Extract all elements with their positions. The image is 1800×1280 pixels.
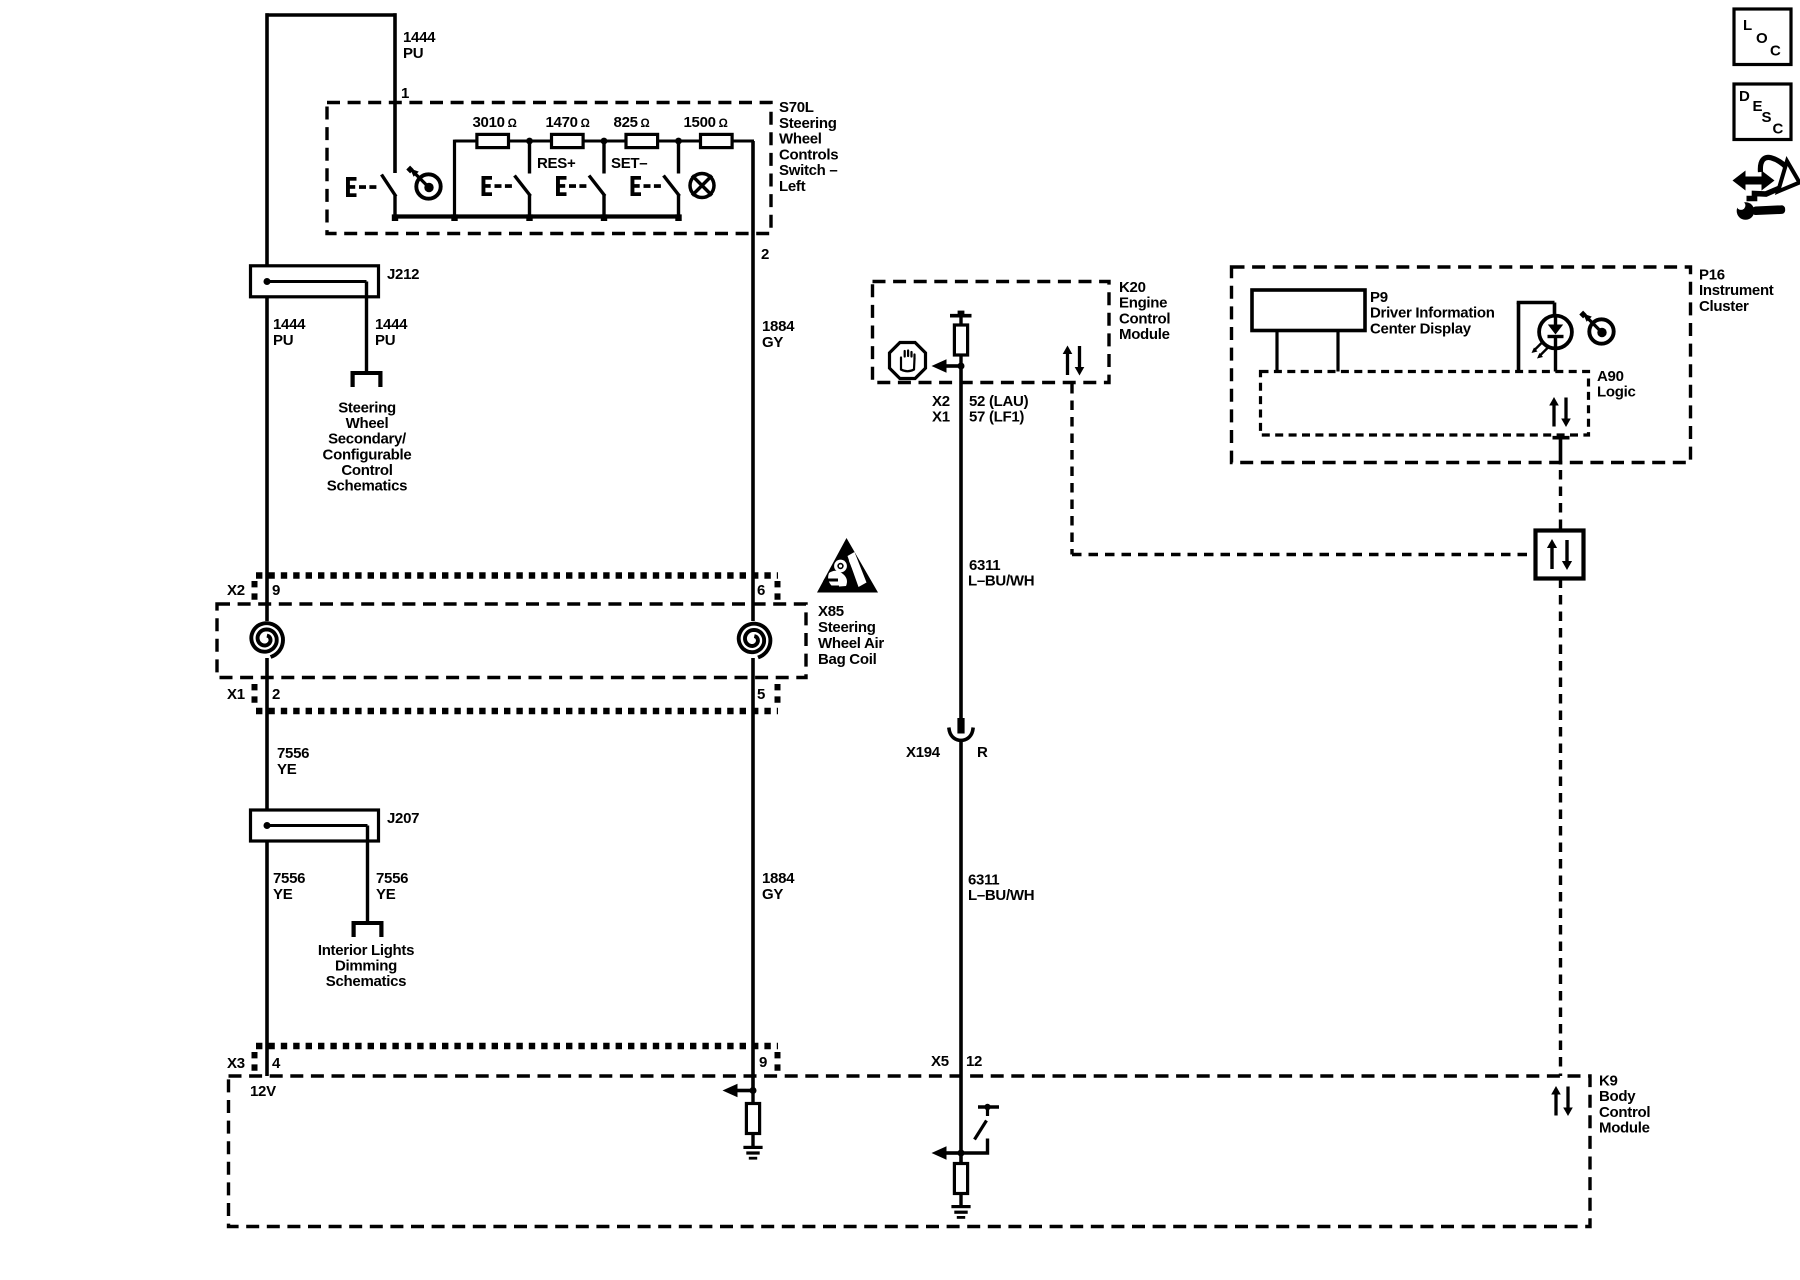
lamp symbol (illumination) <box>690 174 714 198</box>
resistor 825 ohm <box>626 134 658 147</box>
serial data arrows (A90) <box>1549 397 1571 427</box>
signal arrow (K9 left input) <box>723 1084 754 1098</box>
resistor (K9 middle pull-down) <box>954 1164 967 1194</box>
svg-text:Cluster: Cluster <box>1699 298 1749 315</box>
LOC reference box <box>1734 9 1791 65</box>
svg-text:Steering: Steering <box>779 115 837 132</box>
svg-text:Bag Coil: Bag Coil <box>818 651 877 668</box>
connector X2 row (dotted) <box>255 576 779 601</box>
svg-text:Instrument: Instrument <box>1699 282 1774 299</box>
svg-text:Control: Control <box>1599 1104 1650 1121</box>
P9 Driver Information Center Display <box>1252 290 1365 372</box>
wire: resistor ladder top rail <box>455 140 755 143</box>
svg-text:6311: 6311 <box>969 557 1000 574</box>
svg-text:12: 12 <box>966 1053 982 1070</box>
wire: serial data dashed from gateway to K9 <box>1559 579 1562 1077</box>
switch S3 SET- (E-- blade) <box>556 141 605 217</box>
serial data arrows (K20) <box>1063 346 1085 376</box>
svg-text:GY: GY <box>762 334 783 351</box>
wire: serial data dashed from A90 down to gateway <box>1559 470 1562 529</box>
A90 Logic (dashed box) <box>1261 372 1589 436</box>
svg-text:Control: Control <box>341 462 392 479</box>
pin 6 label <box>757 582 765 599</box>
wire: left main vertical 1444 PU / 7556 YE (upper section) <box>265 13 269 621</box>
svg-text:6311: 6311 <box>968 872 999 889</box>
pin 5 label <box>757 686 765 703</box>
label X3 <box>227 1055 245 1072</box>
air bag coil left spiral <box>251 623 283 657</box>
wire: right vertical 1884 GY below air bag coil into K9 pin 9 <box>751 658 755 1091</box>
hand-off octagon icon <box>890 343 926 379</box>
svg-text:YE: YE <box>277 761 297 778</box>
cruise control gauge icon <box>406 166 440 199</box>
svg-text:R: R <box>977 744 988 761</box>
svg-text:YE: YE <box>273 886 293 903</box>
svg-text:SET–: SET– <box>611 155 647 172</box>
label X2 <box>227 582 245 599</box>
svg-text:Interior Lights: Interior Lights <box>318 942 414 959</box>
svg-text:S: S <box>1762 109 1772 126</box>
signal arrow (input) <box>932 359 963 373</box>
label A90 Logic <box>1597 368 1636 401</box>
svg-text:K9: K9 <box>1599 1073 1618 1090</box>
X85 Steering Wheel Air Bag Coil (dashed box) <box>217 604 806 678</box>
svg-text:J207: J207 <box>387 810 419 827</box>
LED indicator (backlight) <box>1532 316 1572 372</box>
cluster gauge icon <box>1579 311 1613 344</box>
svg-text:D: D <box>1739 88 1750 105</box>
internal connection bar (A90 serial out) <box>1553 438 1570 465</box>
svg-text:Center Display: Center Display <box>1370 320 1472 337</box>
pin label X1 57 (LF1) <box>932 409 1024 426</box>
label K20 Engine Control Module <box>1119 279 1170 343</box>
label X194 <box>906 744 941 761</box>
wire: junction to resistor <box>751 1091 754 1104</box>
label J212 <box>387 266 419 283</box>
svg-text:Dimming: Dimming <box>335 958 397 975</box>
svg-text:GY: GY <box>762 886 783 903</box>
wire: resistor to output node <box>959 355 962 368</box>
label R <box>977 744 988 761</box>
svg-text:Left: Left <box>779 178 806 195</box>
pin 2 label <box>761 246 769 263</box>
svg-text:O: O <box>1756 30 1768 47</box>
label 12V <box>250 1083 276 1100</box>
svg-text:X2: X2 <box>227 582 245 599</box>
wire: serial data dashed horizontal to gateway <box>1072 553 1534 556</box>
svg-text:P9: P9 <box>1370 289 1388 306</box>
wire label 6311 L-BU/WH (lower) <box>968 872 1034 905</box>
air bag warning triangle icon <box>817 538 878 593</box>
svg-text:Control: Control <box>1119 310 1170 327</box>
connector X3 row (dotted) <box>255 1046 779 1071</box>
svg-text:Steering: Steering <box>818 619 876 636</box>
svg-text:Engine: Engine <box>1119 295 1167 312</box>
wire: switch common bottom bus <box>392 214 682 221</box>
svg-text:X3: X3 <box>227 1055 245 1072</box>
wire label 1444 PU (left of J212) <box>273 316 306 349</box>
svg-text:Steering: Steering <box>338 400 396 417</box>
ground (K9 middle) <box>951 1205 970 1219</box>
S70L Steering Wheel Controls Switch - Left (dashed module box) <box>327 103 771 234</box>
svg-text:Secondary/: Secondary/ <box>328 431 407 448</box>
svg-text:Driver Information: Driver Information <box>1370 305 1495 322</box>
wire label 7556 YE (left of branch) <box>273 870 305 903</box>
K9 Body Control Module (dashed box) <box>229 1076 1591 1227</box>
label P9 Driver Information Center Display <box>1370 289 1495 337</box>
pin 9 label (right wire) <box>759 1054 767 1071</box>
splice pack J207 <box>251 810 379 921</box>
svg-text:K20: K20 <box>1119 279 1146 296</box>
svg-text:6: 6 <box>757 582 765 599</box>
svg-text:C: C <box>1770 43 1781 60</box>
svg-text:PU: PU <box>375 332 395 349</box>
svg-text:Switch –: Switch – <box>779 162 837 179</box>
svg-text:1444: 1444 <box>273 316 306 333</box>
node: rail junction a <box>526 138 533 145</box>
svg-text:RES+: RES+ <box>537 155 576 172</box>
svg-text:PU: PU <box>273 332 293 349</box>
wire label 1884 GY (lower) <box>762 870 795 903</box>
svg-text:X2: X2 <box>932 393 950 410</box>
serial data arrows (K9) <box>1551 1086 1573 1116</box>
resistor 1470 ohm <box>552 134 584 147</box>
resistor 3010 ohm <box>477 134 509 147</box>
svg-text:1: 1 <box>401 85 409 102</box>
ground (K9 left) <box>743 1146 762 1160</box>
wire: battery feed top horizontal 1444 PU <box>266 13 397 17</box>
value label 3010 ohm <box>473 114 517 131</box>
svg-text:Module: Module <box>1599 1120 1650 1137</box>
pin 2 label <box>272 686 280 703</box>
P16 Instrument Cluster (dashed box) <box>1232 267 1691 463</box>
svg-text:7556: 7556 <box>277 745 309 762</box>
svg-text:C: C <box>1773 121 1784 138</box>
wire: serial data dashed from K20 down <box>1070 384 1073 555</box>
wire: left main vertical below air bag coil to K9 <box>265 658 269 1076</box>
node: K9 pin 12 junction <box>958 1150 965 1157</box>
node: K9 pin 9 junction <box>750 1087 757 1094</box>
resistor (K9 left pull-down) <box>746 1104 759 1134</box>
svg-text:Body: Body <box>1599 1088 1636 1105</box>
wire label 6311 L-BU/WH (upper) <box>968 557 1034 590</box>
label J207 <box>387 810 419 827</box>
svg-text:L: L <box>1743 17 1752 34</box>
node: K20 output junction <box>958 363 965 370</box>
svg-text:4: 4 <box>272 1055 281 1072</box>
switch (K9 serial data monitor) <box>962 1104 999 1153</box>
svg-text:X85: X85 <box>818 603 844 620</box>
wire label 1884 GY (upper) <box>762 318 795 351</box>
svg-text:PU: PU <box>403 45 423 62</box>
label Steering Wheel Secondary/Configurable Control Schematics <box>323 400 412 495</box>
label Interior Lights Dimming Schematics <box>318 942 414 990</box>
svg-text:X194: X194 <box>906 744 941 761</box>
resistor (K20 pull-up) <box>954 325 967 355</box>
svg-text:YE: YE <box>376 886 396 903</box>
label S70L Steering Wheel Controls Switch - Left <box>779 99 838 195</box>
svg-text:9: 9 <box>272 582 280 599</box>
label X5 12 <box>931 1053 982 1070</box>
svg-text:Wheel: Wheel <box>779 131 822 148</box>
label X85 Steering Wheel Air Bag Coil <box>818 603 884 668</box>
svg-text:L–BU/WH: L–BU/WH <box>968 887 1034 904</box>
svg-text:Logic: Logic <box>1597 384 1636 401</box>
svg-text:L–BU/WH: L–BU/WH <box>968 573 1034 590</box>
svg-text:J212: J212 <box>387 266 419 283</box>
wire: resistor ladder left drop <box>453 140 456 217</box>
svg-text:5: 5 <box>757 686 765 703</box>
connector X1 row (dotted) <box>255 684 779 711</box>
splice pack J212 <box>251 266 379 371</box>
label P16 Instrument Cluster <box>1699 267 1774 315</box>
svg-text:1444: 1444 <box>375 316 408 333</box>
svg-text:12V: 12V <box>250 1083 276 1100</box>
label K9 Body Control Module <box>1599 1073 1650 1137</box>
pin 4 label <box>272 1055 281 1072</box>
svg-text:Module: Module <box>1119 326 1170 343</box>
value label 1500 ohm <box>684 114 728 131</box>
wire: resistor to ground (middle) <box>959 1194 962 1206</box>
svg-text:2: 2 <box>272 686 280 703</box>
svg-text:X5: X5 <box>931 1053 949 1070</box>
value label 825 ohm <box>614 114 650 131</box>
label SET- <box>611 155 647 172</box>
label X1 <box>227 686 245 703</box>
node: rail junction c <box>675 138 682 145</box>
air bag coil right spiral <box>739 624 771 658</box>
svg-text:1444: 1444 <box>403 29 436 46</box>
svg-text:2: 2 <box>761 246 769 263</box>
label RES+ <box>537 155 576 172</box>
svg-text:Controls: Controls <box>779 146 838 163</box>
svg-text:S70L: S70L <box>779 99 814 116</box>
svg-text:Schematics: Schematics <box>326 973 406 990</box>
svg-text:9: 9 <box>759 1054 767 1071</box>
node: rail junction b <box>601 138 608 145</box>
wire label 7556 YE (above J207) <box>277 745 309 778</box>
pin 1 label <box>401 85 409 102</box>
wire: middle vertical 6311 L-BU/WH from X194 to K9 resistor <box>959 742 963 1162</box>
svg-text:7556: 7556 <box>273 870 305 887</box>
pin 9 label <box>272 582 280 599</box>
DESC reference box <box>1734 84 1791 140</box>
wire label 7556 YE (branch) <box>376 870 408 903</box>
connector X194 pass-through <box>949 718 973 740</box>
K20 Engine Control Module (dashed box) <box>873 282 1110 383</box>
svg-text:1884: 1884 <box>762 318 795 335</box>
signal arrow (K9 middle input) <box>932 1146 963 1160</box>
wire: right vertical 1884 GY from S70L pin 2 (upper section) <box>751 141 755 621</box>
serial data gateway box <box>1536 531 1584 579</box>
svg-text:Schematics: Schematics <box>327 478 407 495</box>
wire: middle vertical 6311 L-BU/WH from K20 to X194 <box>959 366 963 718</box>
internal connection bar <box>950 311 972 325</box>
wire: resistor to ground <box>751 1134 754 1147</box>
switch S1 cruise on/off (E-- blade) <box>346 175 396 217</box>
diagnostic arrows and wrench icon <box>1728 157 1799 219</box>
svg-text:X1: X1 <box>227 686 245 703</box>
svg-text:Wheel Air: Wheel Air <box>818 635 884 652</box>
wire: circuit 1444 PU into S70L pin 1 <box>393 13 397 173</box>
svg-text:Configurable: Configurable <box>323 446 412 463</box>
off-page connector to interior lights dimming schematics <box>352 921 384 937</box>
wire: LED feed loop <box>1517 303 1555 372</box>
switch S4 (E-- blade) <box>631 141 680 217</box>
svg-text:X1: X1 <box>932 409 950 426</box>
value label 1470 ohm <box>546 114 590 131</box>
off-page connector to steering wheel controls schematics <box>351 371 383 387</box>
svg-text:A90: A90 <box>1597 368 1624 385</box>
svg-text:7556: 7556 <box>376 870 408 887</box>
pin label X2 52 (LAU) <box>932 393 1029 410</box>
svg-text:P16: P16 <box>1699 267 1725 284</box>
wire label 1444 PU (branch) <box>375 316 408 349</box>
svg-text:52 (LAU): 52 (LAU) <box>969 393 1029 410</box>
resistor 1500 ohm <box>701 134 733 147</box>
svg-text:57 (LF1): 57 (LF1) <box>969 409 1024 426</box>
wire label 1444 PU (top) <box>403 29 436 62</box>
svg-text:Wheel: Wheel <box>346 415 389 432</box>
svg-text:1884: 1884 <box>762 870 795 887</box>
switch S2 RES+ (E-- blade) <box>482 141 531 217</box>
